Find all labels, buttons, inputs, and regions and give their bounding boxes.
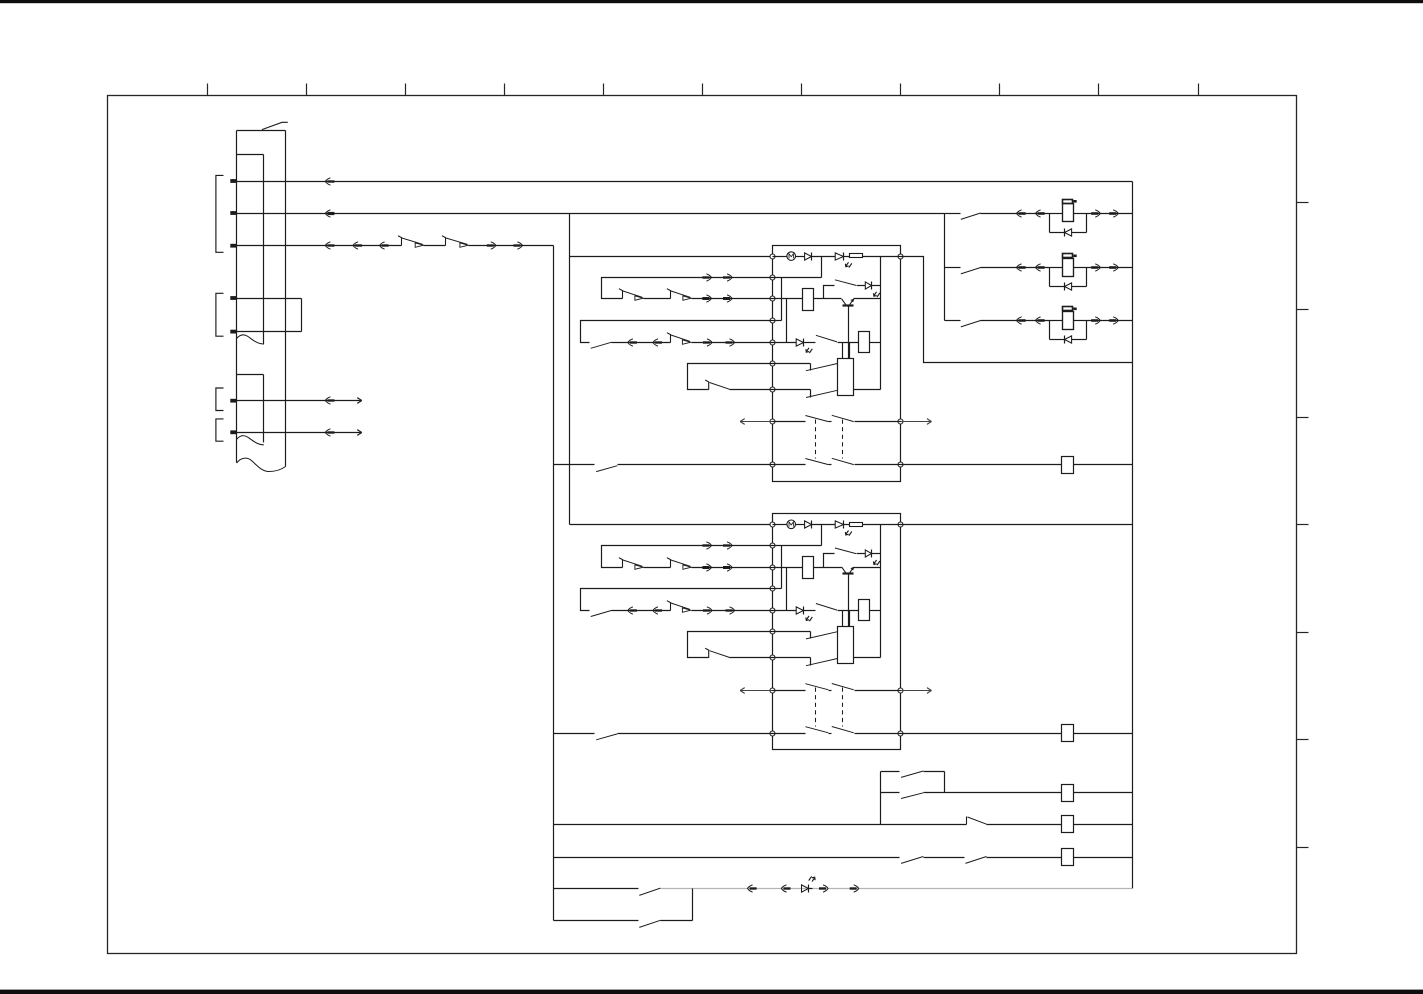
control module B body (773, 514, 901, 750)
module A switch S4 on pin5 row (804, 342, 816, 344)
module A wire pin2-pin4 vertical (781, 278, 783, 321)
wire row with switches S22 S23 and fuse F5 (554, 857, 900, 859)
module A output contacts row B (773, 464, 806, 466)
module B left pins (770, 522, 775, 736)
wire from SOL2 to bus with connector arrows (1087, 267, 1133, 269)
module A resistor R1 (844, 256, 850, 258)
module A LED D4 on pin5 row (773, 342, 797, 344)
wire U-link for module A pins 2/3 (602, 278, 773, 299)
module B actuator links to relay block (842, 611, 844, 627)
connector inner section 2 (237, 375, 264, 445)
terminal arrows (right) on row 3 (491, 242, 496, 249)
switch S15 blade on module B pin5 row (591, 610, 612, 616)
wire + switch S14 on module B pin3 row (644, 567, 671, 569)
module A right pins (898, 254, 903, 467)
module B relay coil K2 (859, 600, 870, 621)
module B switch S6 (pin7 to K3) (773, 657, 811, 659)
external arrow left of module A contact row A (741, 421, 773, 423)
LED D5 on ground return (802, 885, 809, 892)
solenoid bank feed vertical (944, 214, 946, 321)
connector group bracket B1 (216, 175, 224, 252)
module B switch S5 (pin6 to K3) (773, 631, 811, 633)
wire to SOL2 with connector arrows (981, 267, 1050, 269)
wire U-link for module B pins 6/7 (688, 632, 773, 658)
flyback diode for SOL1 (1050, 214, 1087, 237)
module A left pins (770, 254, 775, 467)
connector column lever (diagonal) (262, 122, 288, 129)
wire with connector arrows to module B pin3 (692, 567, 773, 569)
module B row B output to bus with fuse F2 (901, 733, 1062, 735)
wire module B pin5 row with arrows and switch S16 (612, 610, 671, 612)
module B wire pin2-pin4 vertical (781, 546, 783, 589)
inline terminal arrow on row 1 (325, 178, 330, 185)
module B motor indicator M1 (773, 524, 788, 526)
wire row 2 (feed to solenoid bank) (237, 213, 945, 215)
wire row 7 with terminal arrows (237, 432, 362, 434)
switch S20 row to fuse F3 (881, 792, 900, 794)
vertical trunk wire V1 (553, 246, 555, 921)
switch S9 blade on module A pin5 row (591, 342, 612, 348)
module B wire pin3-pin5 vertical (786, 568, 788, 611)
wire U-link for module A pins 6/7 (688, 364, 773, 390)
module B wire row1 (812, 524, 836, 526)
module A output contacts row A (773, 421, 806, 423)
module B LED D3 (857, 553, 866, 555)
module B ganged switch links (815, 688, 817, 727)
switch S19 top row (881, 771, 900, 773)
connector column J1 outer body (237, 131, 286, 472)
module A relay coil K2 (859, 332, 870, 353)
switch feeding SOL1 (945, 213, 961, 215)
wire from SOL1 to bus with connector arrows (1087, 213, 1133, 215)
branch wire to module A pin 1 (570, 256, 773, 258)
terminal arrows on row 3 (325, 242, 330, 249)
wire from SOL3 to bus with connector arrows (1087, 320, 1133, 322)
wire row 3 with switches (237, 245, 402, 247)
module A actuator links to relay block (842, 343, 844, 359)
module A switch step to S3 (824, 286, 835, 299)
connector aux box rows 4-5 (237, 298, 302, 300)
switch S11 on module A pin7 row (705, 380, 709, 390)
module A diode D1 (796, 256, 805, 258)
module A wire junction drop (D1 to pin2) (821, 257, 823, 278)
module B Q1 base lead (848, 575, 850, 627)
wire row with switch S21 and fuse F4 (554, 824, 967, 826)
control module A body (773, 246, 901, 482)
connector terminal pins (230, 179, 236, 434)
module B switch S4 on pin5 row (804, 610, 816, 612)
module B diode D1 (796, 524, 805, 526)
frame tick marks right (1297, 203, 1309, 848)
vertical trunk wire V2 (569, 214, 571, 525)
wire V1 to module A contact row B with switch S12 (554, 464, 595, 466)
module B output contacts row B (773, 733, 806, 735)
module B wire pin5 row to coil K2 (838, 610, 859, 612)
module A wire pin3 row (773, 298, 803, 300)
switch S17 on module B pin7 row (705, 648, 709, 658)
module A wire pin5 row to coil K2 (838, 342, 859, 344)
wire U-link for module B pins 4/5 (581, 589, 773, 611)
module B wire pin3 row (773, 567, 803, 569)
connector arrows module A pin2 row (706, 274, 711, 281)
module B wire junction drop (D1 to pin2) (821, 525, 823, 546)
module A relay block K3 (838, 359, 854, 396)
solenoid SOL3 (1050, 307, 1087, 330)
module B switch step to S3 (824, 554, 835, 568)
wire row 6 with terminal arrows (237, 400, 362, 402)
switch S13 on module B pin3 row (619, 558, 623, 568)
solenoid SOL1 (1050, 200, 1087, 222)
wire U-link for module B pins 2/3 (602, 546, 773, 568)
module B wire pin4 row (773, 588, 782, 590)
wire U-link for module A pins 4/5 (581, 321, 773, 343)
module B wire K3 to internal bus (854, 657, 881, 659)
inline terminal arrow on row 2 (325, 210, 330, 217)
module A wire K3 to internal bus (854, 389, 881, 391)
right vertical bus (1132, 182, 1134, 889)
drawing frame (108, 96, 1297, 954)
module B relay coil K1 (803, 557, 814, 579)
connector group bracket B3 (216, 388, 224, 411)
module A ganged switch links (815, 420, 817, 459)
module A relay coil K1 (803, 289, 814, 311)
module A switch S3 blade (835, 280, 856, 286)
module A switch S6 (pin7 to K3) (773, 389, 811, 391)
module A motor indicator M1 (773, 256, 788, 258)
top black border bar (0, 0, 1423, 3)
module B output contacts row A (773, 690, 806, 692)
wire row 1 (feed to right bus) (237, 181, 1133, 183)
switch S7 on module A pin3 row (619, 289, 623, 299)
module A row B output to bus with fuse F1 (901, 464, 1062, 466)
module B right pins (898, 522, 903, 736)
module B LED D2 (835, 521, 843, 528)
module B wire pin2 row (773, 545, 822, 547)
solenoid SOL2 (1050, 254, 1087, 277)
module A wire pin3-pin5 vertical (786, 299, 788, 343)
module B relay block K3 (838, 627, 854, 664)
external arrow right of module B contact row A (901, 690, 932, 692)
flyback diode for SOL3 (1050, 321, 1087, 344)
wire V1 to module B contact row B with switch S18 (554, 733, 595, 735)
module A switch S5 (pin6 to K3) (773, 363, 811, 365)
parallel switch pair box verticals (880, 772, 882, 825)
module A Q1 collector wire (854, 298, 881, 300)
module B resistor R1 (844, 524, 850, 526)
connector inner section 1 (237, 155, 264, 345)
module A wire pin4 row (773, 320, 782, 322)
wire to SOL3 with connector arrows (981, 320, 1050, 322)
flyback diode for SOL2 (1050, 268, 1087, 291)
module B internal bus vertical (880, 525, 882, 658)
module B Q1 collector wire (854, 567, 881, 569)
switch feeding SOL3 (945, 320, 961, 322)
module B pin1 output to bus (901, 524, 1133, 526)
switch feeding SOL2 (945, 267, 961, 269)
alternate path switch S25 (554, 920, 639, 922)
bottom black border bar (0, 990, 1423, 994)
module A wire row1 (812, 256, 836, 258)
ground return row with switch S24 (554, 888, 639, 890)
module B switch S3 blade (835, 548, 856, 554)
wire + switch S8 on module A pin3 row (644, 298, 671, 300)
external arrow right of module A contact row A (901, 421, 932, 423)
wire to SOL1 with connector arrows (981, 213, 1050, 215)
module A internal bus vertical (880, 257, 882, 390)
module A LED D2 (835, 253, 843, 260)
branch wire to module B pin 1 (570, 524, 773, 526)
frame tick marks top (208, 84, 1199, 96)
module B transistor Q1 (842, 567, 854, 573)
module A LED D3 (857, 285, 866, 287)
switch S2 on row 3 (442, 236, 446, 246)
connector group bracket B4 (216, 419, 224, 441)
module A pin1 output elbow to bus (901, 257, 1133, 363)
module B wire coil to transistor (814, 567, 842, 569)
wire with connector arrows to module A pin3 (692, 298, 773, 300)
connector arrows (right) on ground return (823, 885, 828, 892)
module A wire pin2 row (773, 277, 822, 279)
connector group bracket B2 (216, 293, 224, 336)
module B LED D4 on pin5 row (773, 610, 797, 612)
wire module A pin5 row with arrows and switch S10 (612, 342, 671, 344)
module A Q1 base lead (848, 307, 850, 359)
ground return gray wire (661, 888, 1133, 890)
module A transistor Q1 (842, 299, 854, 305)
connector arrows on ground return (747, 885, 752, 892)
switch S1 on row 3 (398, 236, 402, 246)
connector arrows module B pin2 row (706, 542, 711, 549)
module A wire coil to transistor (814, 298, 842, 300)
external arrow left of module B contact row A (741, 690, 773, 692)
